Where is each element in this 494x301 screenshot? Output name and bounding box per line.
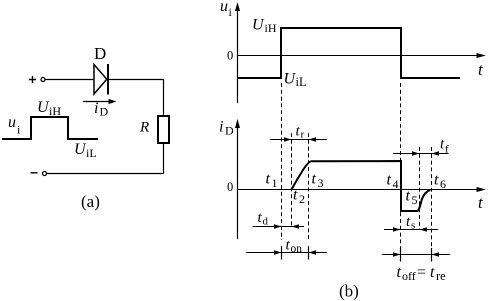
- label iD axis: [219, 119, 234, 138]
- label UiL plot: [284, 71, 307, 90]
- dashed line t2: [291, 133, 293, 227]
- label UiL circuit: [74, 141, 97, 160]
- svg-text:iL: iL: [296, 75, 307, 89]
- wire: [108, 79, 163, 81]
- resistor R: [139, 116, 169, 143]
- svg-text:d: d: [263, 216, 269, 228]
- label t5: [406, 188, 418, 208]
- wire: [45, 79, 94, 81]
- label t2: [293, 187, 305, 207]
- svg-text:R: R: [139, 120, 149, 136]
- svg-text:U: U: [252, 17, 265, 34]
- axis iD vertical: [235, 119, 240, 239]
- dimension td: [253, 210, 305, 229]
- wire: [163, 143, 165, 174]
- svg-text:t: t: [434, 172, 439, 189]
- dashed line t1: [281, 83, 283, 240]
- dimension tr: [270, 124, 327, 142]
- label ui: [8, 114, 21, 137]
- diode D: [94, 44, 108, 95]
- svg-text:0: 0: [227, 49, 233, 63]
- dashed line t6: [431, 147, 433, 249]
- dimension ton: [246, 238, 327, 260]
- svg-text:t: t: [293, 187, 298, 204]
- svg-text:iH: iH: [265, 21, 277, 35]
- svg-text:u: u: [8, 114, 16, 131]
- label t3: [312, 171, 324, 191]
- svg-text:D: D: [94, 44, 106, 63]
- dimension ts: [384, 214, 438, 232]
- label ui axis: [220, 0, 233, 19]
- svg-text:t: t: [397, 264, 402, 281]
- node + terminal: [29, 76, 45, 83]
- dashed line t3: [308, 133, 310, 240]
- svg-text:s: s: [411, 220, 415, 232]
- svg-text:4: 4: [393, 177, 399, 191]
- svg-text:2: 2: [299, 192, 305, 206]
- node - terminal: [31, 172, 47, 176]
- dimension toff: [382, 248, 450, 283]
- svg-text:u: u: [220, 0, 228, 15]
- source pulse symbol: [2, 117, 98, 139]
- svg-text:t: t: [312, 171, 317, 188]
- svg-text:off: off: [402, 269, 416, 283]
- svg-text:i: i: [94, 100, 98, 117]
- svg-text:3: 3: [318, 176, 324, 190]
- axis ui vertical: [235, 2, 240, 103]
- dashed line t4: [400, 83, 402, 249]
- svg-text:on: on: [291, 243, 303, 255]
- label UiH plot: [252, 17, 277, 36]
- svg-text:t: t: [266, 171, 271, 188]
- svg-text:r: r: [301, 129, 305, 141]
- svg-text:t: t: [430, 264, 435, 281]
- svg-text:5: 5: [412, 193, 418, 207]
- svg-text:(b): (b): [339, 282, 359, 301]
- label t1: [266, 171, 278, 191]
- svg-text:iH: iH: [49, 104, 61, 118]
- axis t horizontal top: [238, 53, 487, 58]
- svg-text:i: i: [219, 119, 223, 136]
- svg-text:D: D: [100, 105, 109, 119]
- svg-text:1: 1: [272, 176, 278, 190]
- axis t horizontal bottom: [238, 187, 487, 192]
- label UiH circuit: [37, 99, 61, 118]
- svg-text:0: 0: [227, 180, 233, 194]
- current arrow iD: [83, 99, 117, 119]
- label t4: [387, 172, 399, 192]
- svg-text:=: =: [417, 264, 426, 281]
- label t6: [434, 172, 446, 192]
- svg-text:iL: iL: [86, 146, 97, 160]
- wire: [47, 173, 164, 175]
- svg-text:t: t: [406, 188, 411, 205]
- dashed line t5: [419, 147, 421, 230]
- svg-text:re: re: [436, 269, 446, 283]
- dimension tf: [393, 137, 449, 156]
- svg-text:6: 6: [440, 177, 446, 191]
- wire: [163, 79, 165, 116]
- svg-text:t: t: [387, 172, 392, 189]
- svg-text:f: f: [445, 144, 449, 156]
- waveform ui: [238, 28, 460, 78]
- svg-text:D: D: [225, 124, 234, 138]
- svg-text:(a): (a): [81, 192, 100, 211]
- waveform iD: [292, 161, 431, 211]
